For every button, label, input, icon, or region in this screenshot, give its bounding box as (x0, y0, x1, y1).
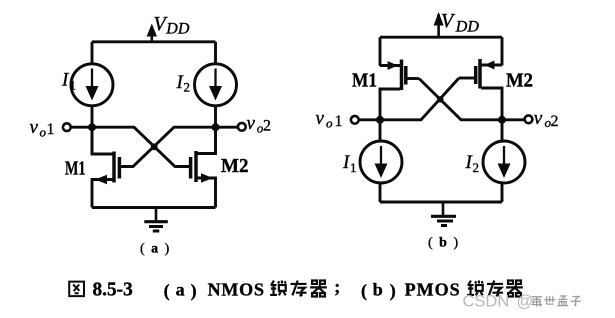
svg-text:CSDN@: CSDN@ (463, 293, 534, 311)
circuit (a) right branch wire to I2 (214, 42, 217, 64)
transistor M1 (PMOS) (380, 60, 419, 120)
circuit (b) right branch wire to M2 source (501, 37, 504, 65)
svg-text:PMOS: PMOS (405, 279, 461, 299)
svg-text:DD: DD (165, 21, 190, 38)
wire I1 to node vo1 (91, 105, 94, 154)
circuit (a) top rail wire (92, 40, 216, 43)
svg-text:1: 1 (335, 113, 343, 130)
svg-text:v: v (534, 108, 543, 129)
svg-text:o: o (40, 125, 47, 140)
wire node vo2 to terminal (216, 126, 239, 129)
cross-coupling wire D: gate of M2 to node vo1 (b) (380, 78, 459, 120)
svg-text:v: v (30, 117, 39, 138)
cross-coupling wire C: gate of M1 to node vo2 (b) (419, 79, 502, 120)
svg-text:( a ): ( a ) (140, 242, 171, 257)
circuit (a) left branch wire to I1 (91, 42, 94, 64)
current source I2 (b) (483, 141, 525, 183)
svg-text:M1: M1 (352, 70, 377, 92)
svg-text:2: 2 (473, 160, 480, 175)
svg-text:M2: M2 (221, 155, 249, 177)
crossing junction blob (151, 143, 158, 150)
current source I2 (a) (195, 64, 237, 106)
watermark hanzi: 再世孟子 (531, 296, 581, 307)
wire I2 to node vo2 (214, 105, 217, 154)
caption hanzi: 锁存器; (270, 281, 327, 297)
svg-text:2: 2 (263, 118, 271, 135)
svg-text:1: 1 (47, 121, 55, 138)
circuit (b) bottom rail wire (380, 201, 502, 204)
wire node vo1 to I1 (b) (379, 120, 382, 142)
wire node vo2 to terminal (b) (502, 118, 525, 121)
svg-text:M1: M1 (65, 158, 86, 180)
svg-text:DD: DD (455, 19, 480, 36)
caption figure number: 图 8.5-3 (69, 282, 84, 296)
wire terminal vo1 to node (b) (359, 118, 380, 121)
svg-text:2: 2 (184, 80, 191, 95)
svg-text:(a): (a) (164, 279, 197, 301)
svg-text:o: o (326, 116, 333, 131)
current source I1 (b) (360, 141, 402, 183)
svg-text:;: ; (334, 277, 340, 297)
ground (a) (144, 208, 168, 232)
svg-text:v: v (316, 108, 325, 129)
node dot vo1 (a) (88, 123, 96, 131)
cross-coupling wire B: node vo2 to gate of M1 (121, 127, 216, 166)
svg-text:1: 1 (70, 78, 77, 93)
transistor M2 (NMOS) (191, 127, 216, 207)
svg-text:(b): (b) (361, 279, 396, 301)
svg-text:V: V (441, 10, 456, 32)
VDD arrow (b) (434, 12, 444, 37)
ground (b) (431, 202, 456, 226)
svg-text:8.5-3: 8.5-3 (93, 278, 133, 300)
node dot vo2 (a) (212, 123, 220, 131)
cross-coupling wire A: node vo1 to gate of M2 (92, 127, 190, 166)
VDD arrow (a) (147, 24, 157, 42)
caption hanzi: 锁存器 (467, 281, 523, 297)
svg-text:1: 1 (350, 160, 357, 175)
transistor M2 (PMOS) (459, 59, 502, 120)
transistor M1 (NMOS) (92, 127, 119, 207)
terminal vo1 (b) (351, 116, 359, 124)
node dot vo1 (b) (376, 116, 384, 124)
circuit (a) bottom rail wire (92, 206, 216, 209)
wire I2 to bottom rail (b) (501, 183, 504, 203)
terminal vo2 (b) (525, 115, 533, 123)
crossing junction blob (b) (437, 96, 443, 102)
wire I1 to bottom rail (b) (379, 183, 382, 203)
svg-text:M2: M2 (506, 70, 533, 92)
terminal vo1 (a) (63, 123, 71, 131)
circuit (b) left branch wire to M1 source (379, 37, 382, 66)
node dot vo2 (b) (498, 116, 506, 124)
svg-text:2: 2 (551, 113, 559, 130)
circuit (b) top rail wire (380, 37, 502, 66)
svg-text:v: v (247, 113, 256, 134)
wire terminal vo1 to node (71, 126, 93, 129)
svg-text:( b ): ( b ) (428, 236, 460, 251)
terminal vo2 (a) (238, 123, 246, 131)
current source I1 (a) (71, 64, 113, 106)
svg-text:NMOS: NMOS (208, 279, 265, 299)
wire node vo2 to I2 (b) (501, 120, 504, 142)
